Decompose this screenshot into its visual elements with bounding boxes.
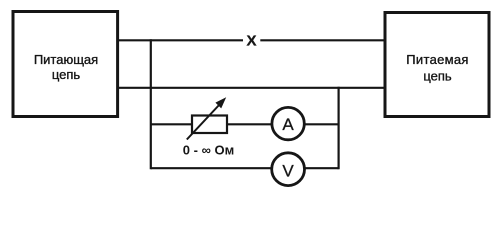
voltmeter V1	[272, 153, 305, 186]
rheostat arrow	[187, 97, 226, 139]
svg-text:X: X	[246, 32, 256, 49]
svg-text:цепь: цепь	[423, 69, 452, 84]
wire ammeter/rheostat branch	[151, 123, 339, 125]
supply circuit box (Питающая цепь)	[13, 12, 118, 117]
wire second (lower connecting line)	[118, 87, 386, 89]
wire top (right segment, X line)	[260, 39, 386, 41]
svg-text:цепь: цепь	[52, 67, 81, 82]
powered circuit box (Питаемая цепь)	[385, 13, 489, 117]
svg-text:0 - ∞ Ом: 0 - ∞ Ом	[183, 143, 234, 158]
wire top (left segment, X line)	[118, 39, 243, 41]
svg-text:Питающая: Питающая	[34, 52, 98, 67]
wire right vertical branch	[338, 87, 340, 170]
svg-text:Питаемая: Питаемая	[406, 52, 468, 67]
wire left vertical branch	[150, 39, 152, 169]
svg-text:V: V	[282, 161, 294, 180]
ammeter A1	[272, 107, 304, 139]
wire voltmeter bottom branch	[151, 167, 339, 169]
resistor (rheostat) body	[192, 116, 227, 134]
svg-text:A: A	[282, 115, 294, 134]
